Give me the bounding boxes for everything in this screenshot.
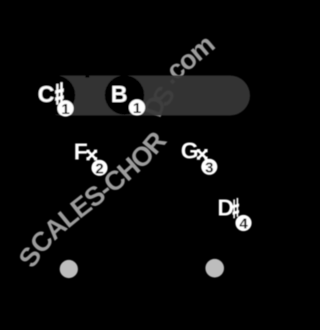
svg-text:C: C — [38, 81, 55, 107]
svg-text:G: G — [181, 138, 199, 164]
open-string dot right — [205, 259, 224, 278]
double sharp glyph for G — [197, 149, 208, 160]
svg-text:1: 1 — [133, 100, 141, 117]
note circle C# — [36, 75, 75, 114]
note circle B — [105, 75, 144, 114]
watermark final S (on bar) — [146, 81, 181, 112]
svg-text:F: F — [74, 139, 88, 165]
notch on bar top edge — [85, 75, 89, 78]
svg-text:1: 1 — [61, 101, 69, 118]
finger badge 4 (D#) — [235, 215, 251, 233]
watermark D (on bar) — [137, 92, 172, 121]
finger badge 2 (Fx) — [91, 160, 107, 178]
svg-text:3: 3 — [205, 159, 213, 176]
finger badge 1 (B) — [129, 99, 145, 117]
sharp sign of C# — [55, 82, 63, 104]
svg-text:4: 4 — [239, 216, 248, 233]
finger badge 3 (Gx) — [201, 159, 217, 177]
svg-text:2: 2 — [95, 160, 103, 177]
barre (gray stadium bar) — [40, 76, 250, 116]
open-string dot left — [60, 260, 78, 278]
svg-text:D: D — [217, 195, 234, 221]
finger badge 1 (C#) — [57, 100, 73, 118]
svg-text:B: B — [111, 81, 128, 107]
double sharp glyph for F — [86, 150, 97, 161]
sharp sign of D# — [232, 198, 239, 218]
